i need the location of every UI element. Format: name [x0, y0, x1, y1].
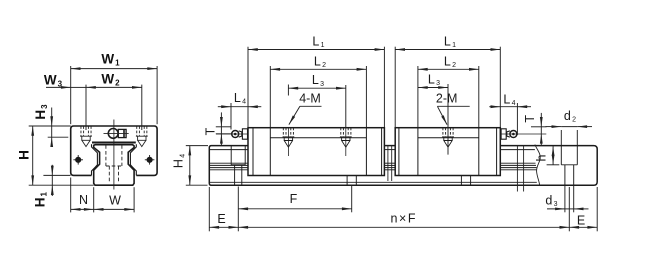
dimension N — [71, 208, 94, 210]
dimension H3 — [51, 108, 53, 127]
dimension d2 — [546, 126, 562, 128]
rail mounting hole 1 (exposed) — [231, 146, 245, 185]
dimension L3 (block 2) — [418, 87, 448, 89]
rail break lines — [388, 145, 540, 192]
block 1 top bolt hole B (4-M) — [340, 128, 352, 156]
end cap screw left — [73, 155, 83, 165]
extension lines: block1 — [247, 47, 249, 127]
dimension E (left) — [209, 226, 238, 228]
carriage inner profile hugging rail — [92, 144, 98, 175]
rail mounting hole 2 (under first block) — [347, 176, 356, 185]
4-M threaded hole right (hidden, dashed), end view — [136, 126, 148, 146]
svg-text:W: W — [109, 194, 121, 208]
extension lines — [70, 66, 72, 124]
block 2 top bolt hole (2-M) — [442, 128, 454, 148]
dimension H1 — [51, 165, 53, 176]
dimension L1 (block 1) — [248, 49, 384, 51]
svg-text:h: h — [534, 154, 548, 161]
svg-text:2-M: 2-M — [436, 92, 458, 106]
svg-text:n×F: n×F — [390, 211, 415, 225]
dimension L4 (block 2) — [489, 106, 500, 108]
svg-text:N: N — [79, 193, 88, 207]
groove lines — [209, 162, 248, 164]
grease nipple of block 2 — [500, 129, 546, 139]
rail mounting hole 3 (under second block) — [461, 176, 470, 185]
svg-text:T: T — [523, 115, 537, 123]
dimension n x F — [238, 226, 569, 228]
dimension L2 (block 2) — [418, 68, 479, 70]
carriage inner top line over rail — [92, 142, 136, 144]
dimension h — [552, 146, 554, 164]
rail profile, end view — [94, 145, 134, 186]
rail outline, side view — [209, 146, 597, 186]
dimension d3 — [547, 208, 565, 210]
dimension W2 — [86, 86, 142, 88]
carriage block 1, side view — [248, 128, 384, 176]
svg-text:E: E — [217, 212, 225, 226]
dimension H4 — [189, 146, 191, 186]
rail mounting hole 4 (sectioned, right end) — [561, 146, 577, 185]
svg-text:H: H — [16, 150, 31, 160]
carriage block 2, side view — [395, 128, 500, 176]
dimension T (left) — [220, 112, 222, 126]
svg-text:T: T — [204, 127, 218, 135]
svg-text:4-M: 4-M — [299, 92, 321, 106]
shoulder line — [209, 149, 248, 151]
grease nipple, end view — [104, 129, 129, 139]
dimension T (right) — [540, 113, 542, 127]
dimension L4 (block 1) — [218, 106, 231, 108]
rail inner lines, side view — [209, 150, 537, 183]
dimension L3 (block 1) — [288, 87, 345, 89]
svg-text:E: E — [577, 214, 585, 228]
block (carriage) outline, end view — [71, 126, 157, 175]
h bottom extension — [547, 164, 560, 166]
H4 extension — [186, 145, 208, 147]
bottom chamfer line — [210, 181, 537, 183]
grease nipple of block 1 — [216, 129, 248, 139]
hidden rail bolt hole, end view (dashed) — [106, 145, 122, 182]
bottom extensions — [208, 187, 210, 231]
end cap screw right — [145, 155, 155, 165]
dimension W — [94, 208, 134, 210]
block 1 top bolt hole A (4-M) — [283, 128, 295, 156]
dimension line middle segments (small dims measured with outside arrows) — [52, 87, 578, 208]
extension lines: block2 — [394, 47, 396, 127]
dimension W1 — [71, 68, 157, 70]
dimension F — [238, 208, 351, 210]
dimension W3 — [46, 86, 71, 88]
4-M threaded hole left (hidden, dashed), end view — [80, 126, 92, 146]
dimension L2 (block 1) — [270, 68, 366, 70]
dimension L1 (block 2) — [395, 49, 500, 51]
dimension E (right) — [569, 226, 597, 228]
center line of end view — [113, 120, 115, 190]
dimension H — [32, 126, 34, 185]
d2/d3 extensions — [560, 130, 562, 145]
svg-text:F: F — [290, 192, 298, 206]
